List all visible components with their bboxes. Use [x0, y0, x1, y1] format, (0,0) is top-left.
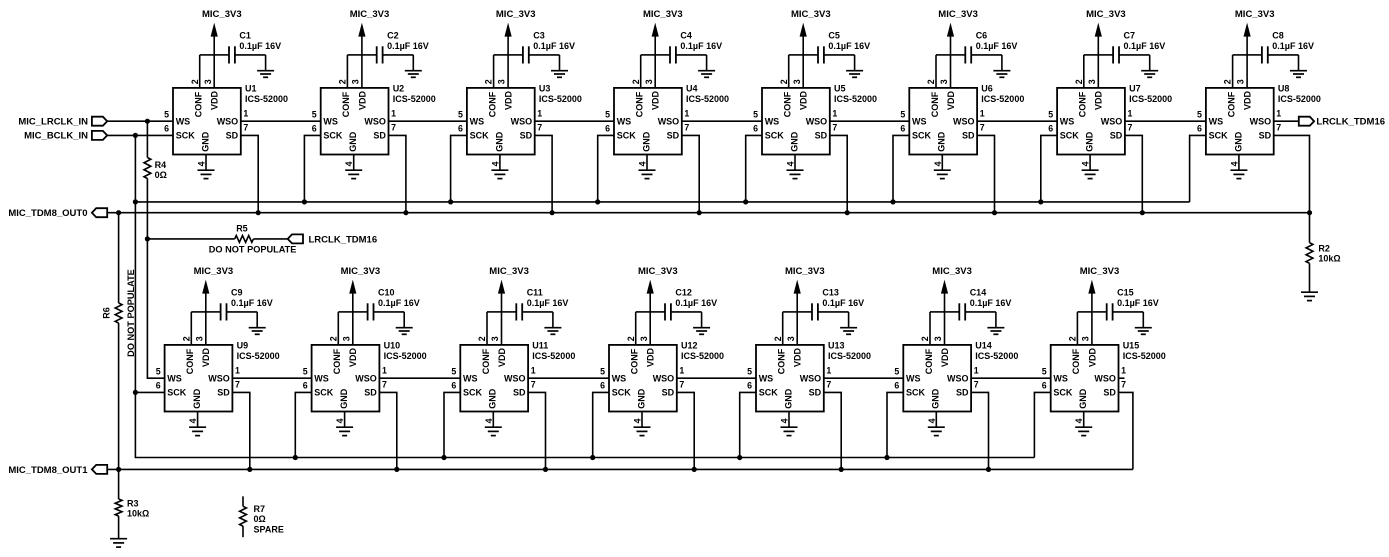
- svg-text:5: 5: [1042, 367, 1047, 377]
- junction SCK bus / BCLK drop: [133, 199, 138, 204]
- U3 pin numbers: [458, 79, 542, 166]
- junction SCK U7 on bus: [1038, 199, 1043, 204]
- svg-text:6: 6: [753, 124, 758, 134]
- svg-text:MIC_3V3: MIC_3V3: [194, 266, 234, 277]
- svg-text:U4: U4: [686, 84, 698, 94]
- power flag MIC_3V3 (U2): [350, 9, 390, 88]
- capacitor C2: [362, 46, 413, 63]
- wire R7 lower lead: [242, 526, 244, 537]
- svg-text:WSO: WSO: [355, 373, 377, 383]
- svg-text:0.1µF 16V: 0.1µF 16V: [527, 298, 569, 308]
- svg-text:3: 3: [351, 79, 361, 84]
- svg-text:SCK: SCK: [167, 388, 187, 398]
- svg-text:CONF: CONF: [481, 348, 491, 374]
- wire R2 to ground: [1309, 263, 1311, 292]
- wire SD U6 to MIC_TDM8_OUT0 bus: [977, 135, 994, 212]
- svg-text:VDD: VDD: [651, 90, 661, 110]
- svg-text:WS: WS: [176, 116, 191, 126]
- svg-text:6: 6: [1042, 381, 1047, 391]
- wire GND pin4 of U14: [935, 412, 937, 428]
- svg-text:WSO: WSO: [953, 116, 975, 126]
- svg-text:2: 2: [773, 336, 783, 341]
- svg-text:SD: SD: [364, 388, 377, 398]
- U4 pin numbers: [605, 79, 689, 166]
- svg-text:CONF: CONF: [1078, 91, 1088, 117]
- svg-text:CONF: CONF: [332, 348, 342, 374]
- svg-text:SCK: SCK: [906, 388, 926, 398]
- svg-text:MIC_3V3: MIC_3V3: [496, 9, 536, 20]
- wire MIC_BCLK vertical to bottom row: [134, 135, 136, 392]
- svg-text:SD: SD: [513, 388, 526, 398]
- wire CONF pin2 of U10 to VDD net: [338, 312, 353, 345]
- junction SCK U11 on bottom bus: [441, 455, 446, 460]
- wire SD U1 to MIC_TDM8_OUT0 bus: [241, 135, 258, 212]
- IC U5 ICS-52000 body: [762, 88, 830, 155]
- svg-text:2: 2: [1074, 79, 1084, 84]
- svg-text:WSO: WSO: [504, 373, 526, 383]
- power flag MIC_3V3 (U15): [1080, 266, 1120, 345]
- wire WSO U13 to WS U14: [824, 377, 904, 379]
- svg-text:CONF: CONF: [185, 348, 195, 374]
- svg-text:VDD: VDD: [1243, 90, 1253, 110]
- svg-text:0Ω: 0Ω: [254, 514, 266, 524]
- svg-text:GND: GND: [937, 131, 947, 152]
- wire SD U5 to MIC_TDM8_OUT0 bus: [830, 135, 847, 212]
- svg-text:SD: SD: [962, 131, 975, 141]
- U13 reference label: [828, 341, 871, 361]
- capacitor C12: [650, 303, 701, 320]
- svg-text:0.1µF 16V: 0.1µF 16V: [1117, 298, 1159, 308]
- wire CONF pin2 of U15 to VDD net: [1077, 312, 1092, 345]
- svg-text:DO NOT POPULATE: DO NOT POPULATE: [126, 269, 136, 357]
- svg-text:SCK: SCK: [1060, 131, 1080, 141]
- U1 pin numbers: [164, 79, 248, 166]
- svg-text:1: 1: [980, 108, 985, 118]
- svg-text:ICS-52000: ICS-52000: [393, 94, 436, 104]
- svg-text:7: 7: [974, 379, 979, 389]
- wire SD U7 to MIC_TDM8_OUT0 bus: [1125, 135, 1142, 212]
- svg-text:MIC_TDM8_OUT1: MIC_TDM8_OUT1: [8, 465, 88, 476]
- junction SD U1 on OUT0 bus: [256, 210, 261, 215]
- power flag MIC_3V3 (U10): [341, 266, 381, 345]
- wire SD U12 to MIC_TDM8_OUT1 bus: [677, 392, 694, 469]
- U11 pin numbers: [451, 336, 535, 423]
- ground (U15 pin 4): [1075, 427, 1092, 435]
- C8 value label: [1272, 31, 1314, 51]
- svg-text:VDD: VDD: [940, 347, 950, 367]
- svg-text:MIC_TDM8_OUT0: MIC_TDM8_OUT0: [8, 208, 87, 219]
- ground (C3): [551, 55, 568, 77]
- svg-text:SD: SD: [809, 388, 822, 398]
- svg-text:2: 2: [484, 79, 494, 84]
- U9 reference label: [237, 341, 280, 361]
- svg-text:7: 7: [531, 379, 536, 389]
- capacitor C7: [1098, 46, 1149, 63]
- U14 pin numbers: [894, 336, 978, 423]
- svg-text:U8: U8: [1278, 84, 1290, 94]
- svg-text:2: 2: [626, 336, 636, 341]
- svg-text:3: 3: [792, 79, 802, 84]
- svg-text:CONF: CONF: [783, 91, 793, 117]
- wire R5 left lead: [147, 238, 234, 240]
- junction SCK U14 on bottom bus: [884, 455, 889, 460]
- svg-text:C8: C8: [1272, 31, 1284, 41]
- junction SCK U4 on bus: [595, 199, 600, 204]
- svg-text:4: 4: [490, 161, 500, 166]
- capacitor C14: [945, 303, 996, 320]
- svg-text:MIC_3V3: MIC_3V3: [1080, 266, 1120, 277]
- svg-text:MIC_3V3: MIC_3V3: [643, 9, 683, 20]
- svg-text:3: 3: [203, 79, 213, 84]
- svg-text:WS: WS: [912, 116, 927, 126]
- wire SCK U5 to SCK bus: [746, 135, 762, 202]
- U9 pin numbers: [156, 336, 240, 423]
- svg-text:0.1µF 16V: 0.1µF 16V: [828, 41, 870, 51]
- svg-text:4: 4: [484, 418, 494, 423]
- svg-text:GND: GND: [1085, 131, 1095, 152]
- svg-text:4: 4: [197, 161, 207, 166]
- wire SCK U2 to SCK bus: [304, 135, 320, 202]
- ground (C8): [1290, 55, 1307, 77]
- svg-text:1: 1: [826, 365, 831, 375]
- svg-text:4: 4: [633, 418, 643, 423]
- svg-text:SCK: SCK: [612, 388, 632, 398]
- U4 reference label: [686, 84, 729, 104]
- IC U6 ICS-52000 body: [909, 88, 977, 155]
- svg-text:1: 1: [684, 108, 689, 118]
- svg-text:3: 3: [1081, 336, 1091, 341]
- svg-text:4: 4: [780, 418, 790, 423]
- svg-text:R3: R3: [127, 498, 139, 508]
- svg-text:WSO: WSO: [1101, 116, 1123, 126]
- svg-text:4: 4: [786, 161, 796, 166]
- svg-text:ICS-52000: ICS-52000: [1123, 351, 1166, 361]
- svg-text:DO NOT POPULATE: DO NOT POPULATE: [209, 244, 297, 254]
- svg-text:7: 7: [1128, 122, 1133, 132]
- svg-text:MIC_3V3: MIC_3V3: [785, 266, 825, 277]
- svg-text:WSO: WSO: [208, 373, 230, 383]
- svg-text:7: 7: [1121, 379, 1126, 389]
- capacitor C4: [655, 46, 706, 63]
- svg-text:1: 1: [832, 108, 837, 118]
- svg-text:WS: WS: [765, 116, 780, 126]
- IC U9 ICS-52000 body: [165, 345, 233, 412]
- wire CONF pin2 of U9 to VDD net: [191, 312, 206, 345]
- port MIC_BCLK_IN: [24, 131, 107, 142]
- wire WSO U12 to WS U13: [677, 377, 756, 379]
- wire GND pin4 of U5: [794, 155, 796, 171]
- wire SD U8 to MIC_TDM8_OUT0 bus: [1274, 135, 1310, 212]
- wire CONF pin2 of U2 to VDD net: [347, 55, 362, 88]
- ground (C11): [544, 312, 561, 334]
- resistor R6 (DO NOT POPULATE): [115, 303, 122, 323]
- capacitor C13: [797, 303, 848, 320]
- ground (R3): [110, 539, 127, 547]
- wire LRCLK vertical to U9 WS: [147, 239, 164, 378]
- svg-text:C13: C13: [822, 288, 839, 298]
- U7 reference label: [1129, 84, 1172, 104]
- svg-text:4: 4: [927, 418, 937, 423]
- ground (U10 pin 4): [336, 427, 353, 435]
- svg-text:6: 6: [605, 124, 610, 134]
- IC U7 ICS-52000 body: [1057, 88, 1125, 155]
- svg-text:U6: U6: [981, 84, 993, 94]
- wire GND pin4 of U1: [205, 155, 207, 171]
- svg-text:7: 7: [537, 122, 542, 132]
- svg-text:ICS-52000: ICS-52000: [532, 351, 575, 361]
- junction SD U3 on OUT0 bus: [550, 210, 555, 215]
- U7 pin numbers: [1048, 79, 1132, 166]
- wire CONF pin2 of U3 to VDD net: [494, 55, 509, 88]
- wire SD U9 to MIC_TDM8_OUT1 bus: [232, 392, 249, 469]
- svg-text:4: 4: [1081, 161, 1091, 166]
- wire CONF pin2 of U11 to VDD net: [487, 312, 502, 345]
- svg-text:C9: C9: [231, 288, 243, 298]
- ground (U3 pin 4): [491, 170, 508, 178]
- junction SCK U5 on bus: [743, 199, 748, 204]
- svg-text:6: 6: [458, 124, 463, 134]
- svg-text:5: 5: [458, 110, 463, 120]
- svg-text:C4: C4: [680, 31, 692, 41]
- junction SCK U3 on bus: [448, 199, 453, 204]
- svg-text:6: 6: [894, 381, 899, 391]
- svg-text:MIC_3V3: MIC_3V3: [638, 266, 678, 277]
- wire BCLK vertical to bottom SCK bus: [135, 392, 1034, 457]
- svg-text:VDD: VDD: [201, 347, 211, 367]
- junction SD U10 on OUT1 bus: [394, 467, 399, 472]
- svg-text:WSO: WSO: [217, 116, 239, 126]
- svg-text:U12: U12: [681, 341, 698, 351]
- wire CONF pin2 of U1 to VDD net: [200, 55, 215, 88]
- svg-text:WS: WS: [1060, 116, 1075, 126]
- wire CONF pin2 of U8 to VDD net: [1233, 55, 1248, 88]
- junction SCK U10 on bottom bus: [293, 455, 298, 460]
- ground (C15): [1135, 312, 1152, 334]
- svg-text:CONF: CONF: [630, 348, 640, 374]
- IC U14 ICS-52000 body: [903, 345, 971, 412]
- R3 value label: [127, 498, 149, 518]
- svg-text:6: 6: [303, 381, 308, 391]
- svg-text:7: 7: [235, 379, 240, 389]
- wire SD U15 to MIC_TDM8_OUT1 bus: [1119, 392, 1133, 469]
- svg-text:GND: GND: [192, 388, 202, 409]
- wire WSO U3 to WS U4: [535, 120, 614, 122]
- power flag MIC_3V3 (U11): [489, 266, 529, 345]
- wire GND pin4 of U2: [353, 155, 355, 171]
- svg-text:GND: GND: [641, 131, 651, 152]
- svg-text:SCK: SCK: [1053, 388, 1073, 398]
- wire R6 lower lead: [118, 323, 120, 469]
- svg-text:MIC_3V3: MIC_3V3: [938, 9, 978, 20]
- wire WSO U1 to WS U2: [241, 120, 321, 122]
- IC U10 ICS-52000 body: [312, 345, 380, 412]
- svg-text:6: 6: [747, 381, 752, 391]
- IC U2 ICS-52000 body: [321, 88, 389, 155]
- ground (U11 pin 4): [485, 427, 502, 435]
- svg-text:GND: GND: [636, 388, 646, 409]
- svg-text:ICS-52000: ICS-52000: [681, 351, 724, 361]
- ground (C7): [1141, 55, 1158, 77]
- wire R2 upper lead: [1309, 213, 1311, 243]
- ground (U4 pin 4): [639, 170, 656, 178]
- power flag MIC_3V3 (U5): [791, 9, 831, 88]
- svg-text:WS: WS: [1053, 373, 1068, 383]
- svg-text:5: 5: [164, 110, 169, 120]
- capacitor C8: [1247, 46, 1298, 63]
- svg-text:WS: WS: [323, 116, 338, 126]
- power flag MIC_3V3 (U12): [638, 266, 678, 345]
- svg-text:C10: C10: [378, 288, 395, 298]
- svg-text:C11: C11: [527, 288, 543, 298]
- ground (C9): [249, 312, 266, 334]
- svg-text:WSO: WSO: [947, 373, 969, 383]
- wire SCK U11 to bottom SCK bus: [444, 392, 460, 457]
- U6 reference label: [981, 84, 1024, 104]
- junction OUT0 / R6: [116, 210, 121, 215]
- U3 reference label: [539, 84, 582, 104]
- svg-text:7: 7: [391, 122, 396, 132]
- svg-text:VDD: VDD: [497, 347, 507, 367]
- C15 value label: [1117, 288, 1159, 308]
- svg-text:6: 6: [312, 124, 317, 134]
- power flag MIC_3V3 (U9): [194, 266, 234, 345]
- resistor R2 10k: [1306, 243, 1313, 264]
- svg-text:U15: U15: [1123, 341, 1140, 351]
- wire SCK U15 to bottom SCK bus: [1034, 392, 1050, 457]
- wire GND pin4 of U12: [641, 412, 643, 428]
- svg-text:7: 7: [826, 379, 831, 389]
- svg-text:ICS-52000: ICS-52000: [237, 351, 280, 361]
- svg-text:SD: SD: [373, 131, 386, 141]
- svg-text:5: 5: [753, 110, 758, 120]
- svg-text:MIC_LRCLK_IN: MIC_LRCLK_IN: [18, 117, 88, 128]
- svg-text:MIC_3V3: MIC_3V3: [1235, 9, 1275, 20]
- svg-text:GND: GND: [1078, 388, 1088, 409]
- wire SCK U13 to bottom SCK bus: [740, 392, 756, 457]
- svg-text:GND: GND: [783, 388, 793, 409]
- wire R5 to LRCLK_TDM16 port: [253, 238, 287, 240]
- IC U8 ICS-52000 body: [1206, 88, 1274, 155]
- power flag MIC_3V3 (U14): [932, 266, 972, 345]
- port MIC_TDM8_OUT1: [8, 465, 107, 476]
- wire GND pin4 of U15: [1083, 412, 1085, 428]
- IC U12 ICS-52000 body: [609, 345, 677, 412]
- svg-text:MIC_3V3: MIC_3V3: [350, 9, 390, 20]
- svg-text:SD: SD: [217, 388, 230, 398]
- wire GND pin4 of U4: [646, 155, 648, 171]
- svg-text:3: 3: [644, 79, 654, 84]
- ground (C2): [405, 55, 422, 77]
- U15 pin numbers: [1042, 336, 1126, 423]
- svg-text:0.1µF 16V: 0.1µF 16V: [970, 298, 1012, 308]
- svg-text:GND: GND: [494, 131, 504, 152]
- IC U3 ICS-52000 body: [467, 88, 535, 155]
- svg-text:SD: SD: [1103, 388, 1116, 398]
- svg-text:1: 1: [974, 365, 979, 375]
- svg-text:CONF: CONF: [635, 91, 645, 117]
- svg-text:VDD: VDD: [504, 90, 514, 110]
- svg-text:4: 4: [344, 161, 354, 166]
- wire GND pin4 of U10: [344, 412, 346, 428]
- C11 value label: [527, 288, 569, 308]
- power flag MIC_3V3 (U13): [785, 266, 825, 345]
- port MIC_LRCLK_IN: [18, 117, 107, 128]
- wire GND pin4 of U8: [1238, 155, 1240, 171]
- svg-text:0.1µF 16V: 0.1µF 16V: [533, 41, 575, 51]
- junction SD U13 on OUT1 bus: [839, 467, 844, 472]
- R2 value label: [1318, 243, 1340, 263]
- wire CONF pin2 of U13 to VDD net: [783, 312, 798, 345]
- wire R4 to R5 junction: [146, 179, 148, 239]
- wire GND pin4 of U7: [1089, 155, 1091, 171]
- svg-text:6: 6: [164, 124, 169, 134]
- wire SD U14 to MIC_TDM8_OUT1 bus: [971, 392, 988, 469]
- ground (C1): [257, 55, 274, 77]
- svg-text:U2: U2: [393, 84, 405, 94]
- svg-text:WS: WS: [463, 373, 478, 383]
- C5 value label: [828, 31, 870, 51]
- svg-text:GND: GND: [931, 388, 941, 409]
- resistor R5 (DO NOT POPULATE): [235, 236, 254, 243]
- svg-text:GND: GND: [789, 131, 799, 152]
- svg-text:WS: WS: [167, 373, 182, 383]
- svg-text:10kΩ: 10kΩ: [1318, 254, 1340, 264]
- ground (U6 pin 4): [934, 170, 951, 178]
- power flag MIC_3V3 (U8): [1235, 9, 1275, 88]
- wire SD U4 to MIC_TDM8_OUT0 bus: [682, 135, 699, 212]
- power flag MIC_3V3 (U6): [938, 9, 978, 88]
- wire SCK U14 to bottom SCK bus: [887, 392, 903, 457]
- wire MIC_TDM8_OUT1 bus: [107, 468, 1133, 470]
- wire R3 upper lead: [118, 469, 120, 499]
- svg-text:C2: C2: [387, 31, 399, 41]
- svg-text:2: 2: [1223, 79, 1233, 84]
- port LRCLK_TDM16 (right): [1299, 117, 1314, 126]
- svg-text:WS: WS: [906, 373, 921, 383]
- wire CONF pin2 of U4 to VDD net: [641, 55, 656, 88]
- svg-text:3: 3: [1087, 79, 1097, 84]
- svg-text:4: 4: [188, 418, 198, 423]
- U10 reference label: [384, 341, 427, 361]
- svg-text:SD: SD: [226, 131, 239, 141]
- svg-text:WSO: WSO: [511, 116, 533, 126]
- U10 pin numbers: [303, 336, 387, 423]
- svg-text:4: 4: [1074, 418, 1084, 423]
- U6 pin numbers: [900, 79, 984, 166]
- capacitor C11: [502, 303, 553, 320]
- svg-text:2: 2: [328, 336, 338, 341]
- U5 reference label: [834, 84, 877, 104]
- svg-text:R7: R7: [254, 504, 266, 514]
- svg-text:GND: GND: [348, 131, 358, 152]
- ground (C6): [993, 55, 1010, 77]
- junction SCK U12 on bottom bus: [590, 455, 595, 460]
- svg-text:5: 5: [1048, 110, 1053, 120]
- junction SD U6 on OUT0 bus: [992, 210, 997, 215]
- junction R5 / R4 / U9 WS: [145, 236, 150, 241]
- wire WSO U5 to WS U6: [830, 120, 910, 122]
- svg-text:MIC_3V3: MIC_3V3: [341, 266, 381, 277]
- svg-text:ICS-52000: ICS-52000: [975, 351, 1018, 361]
- wire GND pin4 of U3: [499, 155, 501, 171]
- wire WSO U7 to WS U8: [1125, 120, 1206, 122]
- ground (C4): [698, 55, 715, 77]
- wire CONF pin2 of U7 to VDD net: [1084, 55, 1099, 88]
- U2 pin numbers: [312, 79, 396, 166]
- U12 reference label: [681, 341, 724, 361]
- ground (U5 pin 4): [787, 170, 804, 178]
- wire GND pin4 of U11: [492, 412, 494, 428]
